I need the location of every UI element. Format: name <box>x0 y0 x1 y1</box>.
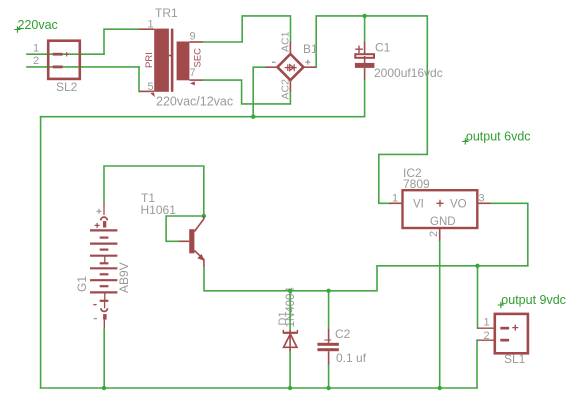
svg-text:1: 1 <box>484 316 490 328</box>
net label 220vac <box>14 18 58 33</box>
wire C2 bottom <box>328 364 330 388</box>
junction bottom rail / D1 <box>288 386 292 390</box>
C1 plus sign <box>355 46 363 53</box>
svg-text:G1: G1 <box>75 276 89 292</box>
svg-text:AC2: AC2 <box>280 79 292 100</box>
svg-text:GND: GND <box>430 216 456 228</box>
TR1 core <box>171 29 174 92</box>
TR1 secondary winding <box>177 42 190 81</box>
B1 right pin stub <box>303 66 316 68</box>
connector SL2 <box>48 41 80 79</box>
wire node to SL1 pin1 <box>477 266 479 328</box>
svg-text:SEC: SEC <box>193 48 204 68</box>
svg-text:0.1 uf: 0.1 uf <box>336 351 367 365</box>
wire C1 bottom to ground rail <box>41 79 365 117</box>
svg-text:TR1: TR1 <box>155 6 178 20</box>
wire bottom ground rail <box>41 387 477 389</box>
svg-text:H1061: H1061 <box>141 203 177 217</box>
TR1 pin7 stub <box>189 79 202 81</box>
svg-text:B1: B1 <box>303 42 318 56</box>
TR1 pin5 stub <box>140 90 155 92</box>
svg-text:1: 1 <box>148 19 154 31</box>
TR1 pin7 direction arrow <box>190 81 195 85</box>
svg-text:C1: C1 <box>375 41 391 55</box>
B1 top pin stub <box>289 42 291 55</box>
IC2 pin3 stub <box>477 202 491 204</box>
svg-text:5: 5 <box>148 81 154 93</box>
junction ground rail / B1 minus <box>251 115 255 119</box>
diode D1 <box>283 330 298 351</box>
wire B1 plus to top rail to C1 and right corner <box>315 16 427 203</box>
wire battery plus to T1 collector node <box>104 166 204 216</box>
wire battery minus to ground rail <box>103 329 105 389</box>
wire SL2 pin2 to TR1 pin5 <box>139 67 140 92</box>
wire IC2 pin3 loop <box>491 203 528 265</box>
T1 base stub <box>179 240 189 242</box>
B1 bottom pin stub <box>289 80 291 92</box>
battery G1 <box>90 203 117 329</box>
svg-text:3: 3 <box>479 193 485 205</box>
svg-text:2: 2 <box>33 55 39 67</box>
G1 bottom pin <box>103 320 105 329</box>
junction emitter net / C2 <box>326 289 330 293</box>
wire TR1 pin7 to B1 AC2 <box>203 80 291 104</box>
wire C2 branch <box>328 291 330 329</box>
svg-text:220vac: 220vac <box>18 18 58 32</box>
svg-text:PRI: PRI <box>144 52 155 68</box>
wire T1 collector node to base loop <box>166 216 204 241</box>
B1 left pin stub <box>266 66 278 68</box>
IC2 pin1 stub <box>389 202 403 204</box>
G1 top clip <box>101 217 108 220</box>
TR1 pin5 direction arrow <box>150 93 155 97</box>
connector SL1 <box>477 314 528 353</box>
svg-text:AC1: AC1 <box>280 31 292 52</box>
svg-text:9: 9 <box>190 31 196 43</box>
B1 diamond body <box>277 54 303 80</box>
svg-text:AB9V: AB9V <box>117 262 131 293</box>
transformer TR1 <box>140 29 203 97</box>
svg-text:C2: C2 <box>335 327 351 341</box>
T1 emitter lead <box>194 251 204 267</box>
wire D1 bottom <box>289 351 291 389</box>
svg-text:2: 2 <box>428 231 440 237</box>
IC2 pin2 stub <box>439 228 441 241</box>
G1 top pin <box>103 203 105 215</box>
svg-text:VI: VI <box>413 199 424 211</box>
svg-text:2: 2 <box>484 330 490 342</box>
svg-text:output 9vdc: output 9vdc <box>501 293 566 307</box>
TR1 pin9 stub <box>189 41 202 43</box>
svg-text:1: 1 <box>33 43 39 55</box>
G1 minus mark red <box>93 304 96 306</box>
G1 bottom clip <box>101 308 108 311</box>
svg-text:7809: 7809 <box>403 177 430 191</box>
wire SL2 pin2 left open end <box>27 66 139 68</box>
T1 emitter arrow <box>197 254 204 261</box>
label B1 plus <box>305 60 310 65</box>
wire left ground rail vertical <box>40 117 42 388</box>
svg-text:VO: VO <box>450 199 467 211</box>
svg-text:SL2: SL2 <box>56 80 78 94</box>
G1 plus mark red <box>95 223 100 228</box>
capacitor C1 <box>355 42 375 80</box>
junction emitter net / D1 <box>288 289 292 293</box>
B1 internal diode <box>285 64 297 71</box>
wire SL2 pin1 left open end <box>27 53 104 55</box>
junction bottom rail / IC2 pin2 <box>438 386 442 390</box>
capacitor C2 <box>317 329 339 365</box>
TR1 primary winding <box>154 29 169 92</box>
net label output 6vdc <box>462 129 530 144</box>
junction T1 collector-base node <box>202 214 206 218</box>
G1 plates <box>90 230 117 300</box>
svg-text:1: 1 <box>392 193 398 205</box>
svg-text:7: 7 <box>190 67 196 79</box>
svg-text:2000uf16vdc: 2000uf16vdc <box>374 66 443 80</box>
bridge rectifier B1 <box>266 42 316 92</box>
net label output 9vdc <box>498 293 566 308</box>
wire D1 branch <box>289 291 291 330</box>
SL1 plus mark <box>512 325 518 331</box>
wire C1 top branch <box>364 16 366 42</box>
T1 collector lead <box>194 216 203 232</box>
svg-text:output 6vdc: output 6vdc <box>466 129 531 143</box>
voltage regulator IC2 <box>389 190 491 241</box>
wire T1 emitter to 9v net <box>204 266 528 291</box>
wire B1 minus to ground rail <box>253 67 266 117</box>
junction bottom rail / battery <box>102 386 106 390</box>
wire IC2 pin2 GND down <box>439 241 441 388</box>
junction 9v net / SL1 pin1 <box>475 264 479 268</box>
G1 cell connect ticks <box>104 256 106 264</box>
junction bottom rail / C2 <box>326 386 330 390</box>
G1 plus mark gray <box>97 209 102 214</box>
wire SL1 pin2 to bottom rail <box>476 340 478 388</box>
label B1 minus <box>272 61 276 63</box>
junction top rail / C1 <box>362 14 366 18</box>
TR1 pin1 stub <box>140 28 155 30</box>
G1 minus mark gray <box>94 318 97 320</box>
wire TR1 pin9 to B1 AC1 <box>203 16 291 42</box>
transistor T1 <box>179 216 204 267</box>
T1 base bar <box>189 229 194 253</box>
IC2 plus mark <box>437 200 444 207</box>
svg-text:220vac/12vac: 220vac/12vac <box>156 95 233 109</box>
svg-text:SL1: SL1 <box>504 352 526 366</box>
wire SL2 pin1 to TR1 pin1 <box>104 29 140 54</box>
